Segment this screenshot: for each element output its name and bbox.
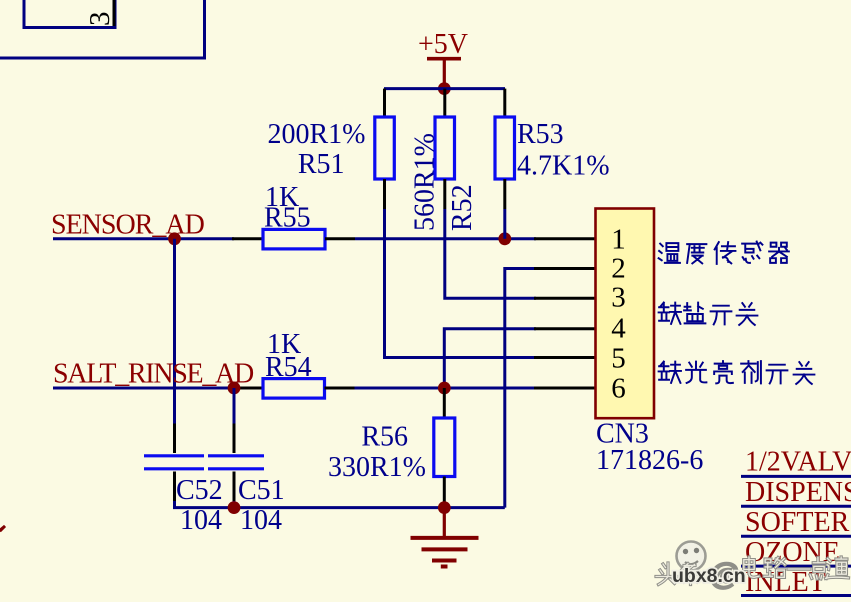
wire R54 to connector pin6 [355,387,537,390]
junction dot SALT / C51 tap [228,382,241,395]
junction dot SENSOR_AD / C52 tap [168,232,181,245]
net label SENSOR_AD [51,210,205,241]
label R56 value 330R1% [328,452,426,483]
svg-text:R51: R51 [298,149,345,180]
label R55 value 1K [265,182,299,213]
svg-text:+5V: +5V [418,29,468,60]
junction dot R54 / R56 / pin4 node [438,382,451,395]
label (Chinese) temperature sensor [659,242,789,264]
pin number 1 [611,223,626,255]
watermark text circuit yidiantong [710,555,848,590]
svg-text:4.7K1%: 4.7K1% [517,150,610,181]
svg-text:200R1%: 200R1% [268,119,366,150]
net label 1/2VALV [745,447,851,478]
wire under SOFTER [741,535,851,538]
svg-text:3: 3 [84,12,116,27]
resistor R53 [495,89,515,209]
svg-text:ubx8.cn: ubx8.cn [672,565,746,587]
wire under 1/2VALV [741,475,851,478]
pin number 5 [611,342,626,374]
label R51 designator [298,149,345,180]
svg-text:R53: R53 [517,119,564,150]
wire pin4 down to R56 node [444,329,536,389]
svg-text:104: 104 [180,505,222,536]
svg-text:6: 6 [611,372,626,404]
label R56 designator [361,422,408,453]
pin 3 of top-left IC [84,0,116,26]
label R52 value 560R1% (rotated) [410,133,441,231]
wire R51 bottom to pin5 [385,209,537,358]
net label SOFTER [745,507,850,538]
capacitor C51 [208,424,264,504]
wire under OZONE [741,565,851,568]
net label DISPENS [745,477,851,508]
junction dot +5V node [438,82,451,95]
wire under DISPENS [741,505,851,508]
net label OZONE [745,537,840,568]
resistor R54 [232,379,355,399]
wire SENSOR_AD horizontal [53,237,234,240]
junction dot node pin1 / R53 [498,232,511,245]
wire R52 bottom to pin3 [445,209,536,298]
resistor R52 [435,89,455,209]
net label SALT_RINSE_AD [53,359,254,390]
sheet/part outer border (top-left, partial) [0,0,205,58]
label C51 designator [238,475,285,506]
svg-text:2: 2 [611,253,626,285]
svg-text:R55: R55 [264,203,311,234]
pin number 6 [611,372,626,404]
wire R55 to connector pin1 [355,237,536,240]
label C52 designator [176,475,223,506]
connector CN3 pin stubs [534,239,596,388]
label C52 value 104 [180,505,222,536]
label (Chinese) rinse-aid-shortage switch [659,361,815,384]
svg-text:560R1%: 560R1% [410,133,441,231]
label R51 value 200R1% [268,119,366,150]
svg-text:1: 1 [611,223,626,255]
junction dot R56 / ground [438,501,451,514]
connector CN3 body [596,209,655,419]
svg-text:DISPENS: DISPENS [745,477,851,508]
svg-text:4: 4 [611,313,626,345]
svg-text:SENSOR_AD: SENSOR_AD [51,210,205,241]
label R54 value 1K [267,329,301,360]
wire under INLET [741,594,851,597]
wire ground net horizontal [173,501,505,508]
pin number 4 [611,313,626,345]
wire R53 bottom to pin1 node [503,209,506,239]
watermark text ubx8.cn [672,565,746,587]
svg-text:3: 3 [611,282,626,314]
watermark avatar circle [677,542,706,571]
label R53 designator [517,119,564,150]
pin number 2 [611,253,626,285]
pin number 3 [611,282,626,314]
svg-text:1/2VALV: 1/2VALV [745,447,851,478]
junction dot C51 / ground [228,501,241,514]
resistor R56 [434,388,455,508]
svg-text:C51: C51 [238,475,285,506]
svg-text:SALT_RINSE_AD: SALT_RINSE_AD [53,359,254,390]
label R52 designator (rotated) [447,184,478,231]
label R54 designator [265,352,312,383]
label CN3 part number 171826-6 [596,445,703,476]
label CN3 designator [596,418,649,449]
resistor R51 [375,89,395,209]
watermark text toutiao [656,563,700,585]
net label INLET [745,567,826,598]
label R55 designator [264,203,311,234]
svg-text:R52: R52 [447,184,478,231]
wire pin2 to ground net [505,269,536,508]
label (Chinese) salt-shortage switch [659,303,758,325]
wire SALT_RINSE_AD horizontal [53,387,234,390]
capacitor C52 [144,424,204,504]
label C51 value 104 [240,505,282,536]
stray mark left edge [0,526,5,532]
svg-text:R54: R54 [265,352,312,383]
wire SENSOR_AD down to C52 [173,239,176,424]
ground symbol [411,508,479,567]
svg-text:R56: R56 [361,422,408,453]
wire +5V bus [384,87,505,90]
resistor R55 [232,229,355,249]
svg-text:5: 5 [611,342,626,374]
wire SALT down to C51 [233,388,236,424]
label R53 value 4.7K1% [517,150,610,181]
svg-text:330R1%: 330R1% [328,452,426,483]
svg-text:C52: C52 [176,475,223,506]
svg-text:SOFTER: SOFTER [745,507,850,538]
power symbol +5V [418,29,468,89]
svg-text:171826-6: 171826-6 [596,445,703,476]
IC U? body outline (top-left, partial) [24,0,115,28]
svg-text:104: 104 [240,505,282,536]
